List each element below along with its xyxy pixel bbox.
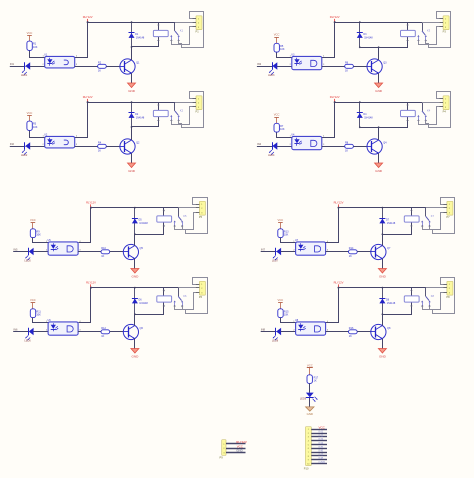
connector P2 (3-pin) xyxy=(192,96,202,114)
power flag RLY12V (channel 7) xyxy=(334,200,344,208)
svg-text:GND: GND xyxy=(379,354,387,358)
net label IN7 xyxy=(319,452,324,456)
power VCC (channel 7) xyxy=(278,218,284,229)
wire collector xyxy=(382,314,384,325)
svg-text:8: 8 xyxy=(308,456,309,458)
svg-text:P2: P2 xyxy=(196,110,200,114)
connector P9 (3-pin power header) xyxy=(220,440,227,460)
wire resistor to optocoupler pin 1 xyxy=(281,238,296,243)
svg-text:LED2: LED2 xyxy=(21,154,28,157)
net label IN2 xyxy=(10,142,15,146)
wire rail to optocoupler pin 4 xyxy=(75,103,88,138)
net label RLY12V xyxy=(236,440,247,444)
LED LED5 (input indicator) xyxy=(24,248,33,263)
wire input to LED xyxy=(13,331,29,333)
resistor R8 1K (base) xyxy=(345,141,354,152)
wire diode/collector to relay coil xyxy=(135,288,166,315)
net label IN6 xyxy=(319,449,324,453)
svg-text:LED7: LED7 xyxy=(272,260,279,263)
svg-text:R14: R14 xyxy=(349,247,354,250)
svg-text:Q2: Q2 xyxy=(136,141,140,144)
svg-text:1N4148: 1N4148 xyxy=(139,302,148,305)
svg-text:GND: GND xyxy=(319,460,327,464)
svg-text:P8: P8 xyxy=(446,295,450,299)
wire resistor to LED9 xyxy=(309,383,311,392)
relay K2 coil xyxy=(153,108,183,116)
ground (channel 8) xyxy=(378,349,386,359)
relay K1 coil xyxy=(153,28,183,36)
svg-text:2: 2 xyxy=(308,433,309,435)
svg-text:RLY12V: RLY12V xyxy=(334,280,344,284)
svg-text:RLY12V: RLY12V xyxy=(86,280,96,284)
diode D1 1N4148 xyxy=(129,21,145,48)
svg-text:VCC: VCC xyxy=(30,298,36,302)
svg-text:RLY12V: RLY12V xyxy=(330,15,340,19)
power flag RLY12V (channel 4) xyxy=(330,95,340,103)
svg-text:1K: 1K xyxy=(345,150,348,153)
wire resistor to optocoupler pin 1 xyxy=(30,131,45,138)
wire RLY12V rail xyxy=(91,287,179,289)
svg-text:10K: 10K xyxy=(284,234,289,237)
wire connector pin 1 routing xyxy=(430,198,455,234)
svg-text:1K: 1K xyxy=(345,70,348,73)
wire connector pin 1 routing xyxy=(183,198,208,234)
net label IN2 xyxy=(319,433,324,437)
wire base resistor to transistor base xyxy=(110,251,124,253)
svg-text:RLY12V: RLY12V xyxy=(83,95,93,99)
connector P3 (3-pin) xyxy=(439,16,449,34)
wire input to LED xyxy=(13,251,29,253)
connector P5 (3-pin) xyxy=(196,201,206,219)
wire input to LED xyxy=(10,66,26,68)
ground (channel 2) xyxy=(128,163,136,173)
power flag RLY12V (channel 2) xyxy=(83,95,93,103)
relay K6 coil xyxy=(157,294,187,302)
relay K7 contact (SPDT) xyxy=(421,208,431,228)
optocoupler U1 xyxy=(42,53,78,68)
wire optocoupler pin 3 to base resistor xyxy=(75,66,98,68)
svg-text:P6: P6 xyxy=(199,295,203,299)
LED LED7 (input indicator) xyxy=(272,248,281,263)
wire rail to optocoupler pin 4 xyxy=(75,23,88,58)
svg-text:10K: 10K xyxy=(280,48,285,51)
diode D8 1N4148 xyxy=(379,287,395,315)
svg-text:GND: GND xyxy=(379,274,387,278)
optocoupler U2 xyxy=(42,133,78,148)
wire connector pin 3 routing xyxy=(419,27,440,45)
wire base resistor to transistor base xyxy=(106,146,120,148)
wire RLY12V rail xyxy=(335,102,423,104)
svg-text:1K: 1K xyxy=(314,380,317,383)
relay K8 coil xyxy=(404,294,434,302)
wire LED9 to ground xyxy=(309,398,311,407)
net label IN1 xyxy=(319,430,324,434)
ground (channel 3) xyxy=(375,83,383,93)
net label VCC xyxy=(319,426,326,430)
wire optocoupler pin 3 to base resistor xyxy=(78,331,101,333)
wire RLY12V rail xyxy=(88,102,176,104)
svg-text:1: 1 xyxy=(308,429,309,431)
diode D6 1N4148 xyxy=(132,287,148,315)
svg-text:LED9: LED9 xyxy=(300,398,307,401)
wire connector pin 1 routing xyxy=(179,12,204,48)
transistor Q3 (NPN) xyxy=(367,59,387,74)
net label IN8 xyxy=(319,456,324,460)
connector P7 (3-pin) xyxy=(443,201,453,219)
optocoupler U7 xyxy=(293,239,329,255)
wire resistor to optocoupler pin 1 xyxy=(277,53,292,58)
wire relay common to connector pin 2 xyxy=(422,22,439,24)
wire resistor to optocoupler pin 1 xyxy=(281,318,296,323)
power VCC (channel 5) xyxy=(30,218,36,229)
wire emitter to ground xyxy=(131,153,133,163)
power flag RLY12V (channel 5) xyxy=(86,200,96,208)
relay K3 contact (SPDT) xyxy=(417,22,427,42)
svg-text:GND: GND xyxy=(375,169,383,173)
svg-text:K6: K6 xyxy=(183,294,187,298)
svg-text:K4: K4 xyxy=(427,108,431,112)
diode D3 1N4148 xyxy=(357,21,373,48)
wire diode/collector to relay coil xyxy=(383,288,413,315)
svg-text:LED1: LED1 xyxy=(21,74,28,77)
svg-text:RLY12V: RLY12V xyxy=(86,200,96,204)
wire P10 pin 1 xyxy=(311,429,327,431)
svg-text:10K: 10K xyxy=(36,314,41,317)
transistor Q1 (NPN) xyxy=(120,59,140,74)
svg-text:IN8: IN8 xyxy=(261,328,266,332)
svg-text:IN2: IN2 xyxy=(10,142,15,146)
ground (channel 4) xyxy=(375,163,383,173)
svg-text:1N4148: 1N4148 xyxy=(139,222,148,225)
wire connector pin 3 routing xyxy=(172,107,193,125)
ground (power LED) xyxy=(306,407,314,416)
svg-text:Q1: Q1 xyxy=(136,61,140,64)
relay K5 contact (SPDT) xyxy=(174,208,184,228)
resistor R16 1K (base) xyxy=(349,327,358,338)
svg-text:P7: P7 xyxy=(446,215,450,219)
transistor Q2 (NPN) xyxy=(120,139,140,154)
wire collector xyxy=(134,234,136,245)
svg-text:3: 3 xyxy=(308,437,309,439)
resistor R5 10K (pull-up) xyxy=(274,43,285,52)
wire connector pin 3 routing xyxy=(423,213,444,230)
wire input to LED xyxy=(10,146,26,148)
svg-text:VCC: VCC xyxy=(30,218,36,222)
wire connector pin 3 routing xyxy=(419,107,440,125)
svg-text:K2: K2 xyxy=(180,108,184,112)
wire rail to optocoupler pin 4 xyxy=(322,23,335,58)
resistor R17 1K xyxy=(307,375,319,384)
resistor R14 1K (base) xyxy=(349,247,358,258)
svg-text:VCC: VCC xyxy=(27,31,33,35)
svg-text:1N4148: 1N4148 xyxy=(387,222,396,225)
wire collector xyxy=(378,127,380,140)
relay K6 contact (SPDT) xyxy=(174,288,184,308)
wire P10 pin 8 xyxy=(311,455,327,457)
wire diode/collector to relay coil xyxy=(383,208,413,235)
wire LED to optocoupler pin 2 xyxy=(33,251,48,253)
wire connector pin 3 routing xyxy=(175,213,196,230)
resistor R6 1K (base) xyxy=(345,61,354,72)
ground (channel 6) xyxy=(131,349,139,359)
wire optocoupler pin 3 to base resistor xyxy=(322,66,345,68)
net label IN3 xyxy=(257,62,262,66)
wire relay common to connector pin 2 xyxy=(426,207,443,209)
relay K7 coil xyxy=(404,214,434,222)
svg-text:7: 7 xyxy=(308,452,309,454)
wire connector pin 1 routing xyxy=(183,278,208,314)
svg-text:1N4148: 1N4148 xyxy=(364,37,373,40)
wire rail to optocoupler pin 4 xyxy=(79,288,91,323)
svg-text:K5: K5 xyxy=(183,214,187,218)
wire emitter to ground xyxy=(134,339,136,349)
power flag RLY12V (channel 6) xyxy=(86,280,96,288)
relay K5 coil xyxy=(157,214,187,222)
svg-text:VCC: VCC xyxy=(278,218,284,222)
wire RLY12V rail xyxy=(335,22,423,24)
transistor Q4 (NPN) xyxy=(367,139,387,154)
wire connector pin 3 routing xyxy=(175,293,196,310)
wire emitter to ground xyxy=(378,73,380,83)
svg-text:RLY12V: RLY12V xyxy=(330,95,340,99)
connector P1 (3-pin) xyxy=(192,16,202,34)
resistor R1 10K (pull-up) xyxy=(27,41,38,50)
svg-text:1N4148: 1N4148 xyxy=(136,117,145,120)
resistor R4 1K (base) xyxy=(98,141,107,152)
wire rail to optocoupler pin 4 xyxy=(326,208,339,243)
wire collector xyxy=(382,234,384,245)
resistor R12 1K (base) xyxy=(101,327,110,338)
transistor Q7 (NPN) xyxy=(371,244,391,259)
svg-text:RLY12V: RLY12V xyxy=(334,200,344,204)
svg-text:LED8: LED8 xyxy=(272,340,279,343)
svg-text:P10: P10 xyxy=(304,466,309,470)
wire base resistor to transistor base xyxy=(353,146,367,148)
wire P10 pin 2 xyxy=(311,433,327,435)
net label IN8 xyxy=(261,328,266,332)
svg-text:P5: P5 xyxy=(199,215,203,219)
connector P4 (3-pin) xyxy=(439,96,449,114)
wire base resistor to transistor base xyxy=(357,331,371,333)
wire diode/collector to relay coil xyxy=(360,22,409,47)
wire connector pin 1 routing xyxy=(426,12,451,48)
LED LED3 (input indicator) xyxy=(268,62,277,77)
wire P9 pin 3 xyxy=(226,452,246,454)
wire base resistor to transistor base xyxy=(353,66,367,68)
wire P10 pin 3 xyxy=(311,436,327,438)
resistor R7 10K (pull-up) xyxy=(274,123,285,132)
LED LED1 (input indicator) xyxy=(21,62,30,77)
resistor R3 10K (pull-up) xyxy=(27,121,38,130)
svg-text:9: 9 xyxy=(308,460,309,462)
wire connector pin 1 routing xyxy=(179,92,204,128)
wire relay common to connector pin 2 xyxy=(426,287,443,289)
svg-text:LED6: LED6 xyxy=(24,340,31,343)
wire RLY12V rail xyxy=(91,207,179,209)
svg-text:GND: GND xyxy=(128,169,136,173)
svg-text:P9: P9 xyxy=(220,456,224,460)
wire RLY12V rail xyxy=(339,287,427,289)
power VCC (power LED) xyxy=(307,364,313,375)
wire connector pin 3 routing xyxy=(423,293,444,310)
svg-text:10: 10 xyxy=(307,463,309,465)
wire relay common to connector pin 2 xyxy=(175,102,192,104)
svg-text:LED3: LED3 xyxy=(268,74,275,77)
svg-text:1K: 1K xyxy=(101,255,104,258)
wire emitter to ground xyxy=(382,339,384,349)
optocoupler U3 xyxy=(290,53,326,69)
svg-text:1K: 1K xyxy=(349,335,352,338)
ground (channel 1) xyxy=(128,83,136,93)
wire P9 pin 2 xyxy=(226,448,246,450)
transistor Q8 (NPN) xyxy=(371,324,391,339)
resistor R10 1K (base) xyxy=(101,247,110,258)
svg-text:1K: 1K xyxy=(349,255,352,258)
power VCC (channel 2) xyxy=(27,111,33,121)
resistor R2 1K (base) xyxy=(98,61,107,72)
svg-text:1N4148: 1N4148 xyxy=(364,117,373,120)
svg-text:10K: 10K xyxy=(36,234,41,237)
svg-text:K8: K8 xyxy=(431,294,435,298)
wire LED to optocoupler pin 2 xyxy=(281,331,296,333)
optocoupler U6 xyxy=(46,319,82,335)
wire P10 pin 5 xyxy=(311,444,327,446)
wire optocoupler pin 3 to base resistor xyxy=(326,331,349,333)
net label GND xyxy=(319,460,327,464)
svg-text:RLY12V: RLY12V xyxy=(83,15,93,19)
diode D4 1N4148 xyxy=(357,101,373,128)
wire optocoupler pin 3 to base resistor xyxy=(75,146,98,148)
svg-text:K7: K7 xyxy=(431,214,435,218)
diode D7 1N4148 xyxy=(379,207,395,236)
LED LED8 (input indicator) xyxy=(272,328,281,343)
wire collector xyxy=(134,314,136,325)
optocoupler U5 xyxy=(46,239,82,255)
ground (channel 5) xyxy=(131,269,139,279)
svg-text:VCC: VCC xyxy=(27,111,33,115)
power flag RLY12V (channel 8) xyxy=(334,280,344,288)
wire collector xyxy=(131,127,133,140)
net label IN3 xyxy=(319,437,324,441)
net label IN4 xyxy=(257,142,262,146)
junction node collector xyxy=(378,126,380,128)
optocoupler U4 xyxy=(290,133,326,149)
wire LED to optocoupler pin 2 xyxy=(281,251,296,253)
wire connector pin 1 routing xyxy=(426,92,451,128)
wire RLY12V rail xyxy=(88,22,176,24)
resistor R15 10K (pull-up) xyxy=(278,309,289,318)
transistor Q6 (NPN) xyxy=(123,324,143,339)
wire resistor to optocoupler pin 1 xyxy=(277,133,292,138)
wire RLY12V rail xyxy=(339,207,427,209)
resistor R9 10K (pull-up) xyxy=(30,229,41,238)
power flag RLY12V (channel 1) xyxy=(83,15,93,23)
LED LED4 (input indicator) xyxy=(268,142,277,157)
relay K8 contact (SPDT) xyxy=(421,288,431,308)
svg-text:IN7: IN7 xyxy=(261,248,266,252)
svg-text:R12: R12 xyxy=(101,327,106,330)
svg-text:IN6: IN6 xyxy=(13,328,18,332)
relay K4 contact (SPDT) xyxy=(417,102,427,122)
wire P10 pin 10 xyxy=(311,463,327,465)
LED LED6 (input indicator) xyxy=(24,328,33,343)
wire diode/collector to relay coil xyxy=(132,102,160,126)
svg-text:1K: 1K xyxy=(101,335,104,338)
svg-text:10K: 10K xyxy=(280,128,285,131)
power VCC (channel 8) xyxy=(278,298,284,309)
svg-text:P4: P4 xyxy=(443,110,447,114)
LED LED2 (input indicator) xyxy=(21,142,30,157)
relay K1 contact (SPDT) xyxy=(170,22,180,42)
wire relay common to connector pin 2 xyxy=(178,207,195,209)
wire resistor to optocoupler pin 1 xyxy=(33,238,49,243)
wire input to LED xyxy=(261,251,277,253)
wire input to LED xyxy=(261,331,277,333)
wire diode/collector to relay coil xyxy=(135,208,166,235)
wire emitter to ground xyxy=(382,259,384,269)
svg-text:5: 5 xyxy=(308,444,309,446)
net label VCC xyxy=(237,444,243,448)
wire input to LED xyxy=(257,146,273,148)
wire emitter to ground xyxy=(378,153,380,163)
wire P10 pin 9 xyxy=(311,459,327,461)
svg-text:GND: GND xyxy=(128,89,136,93)
relay K4 coil xyxy=(401,108,431,116)
net label IN4 xyxy=(319,441,324,445)
wire diode/collector to relay coil xyxy=(132,22,160,46)
optocoupler U8 xyxy=(293,319,329,335)
svg-text:R16: R16 xyxy=(349,327,354,330)
net label IN7 xyxy=(261,248,266,252)
svg-text:LED5: LED5 xyxy=(24,260,31,263)
svg-text:VCC: VCC xyxy=(274,33,280,37)
power VCC (channel 4) xyxy=(274,113,280,124)
svg-text:VCC: VCC xyxy=(278,298,284,302)
wire diode/collector to relay coil xyxy=(360,102,409,127)
svg-text:GND: GND xyxy=(375,89,383,93)
wire collector xyxy=(378,47,380,60)
diode D5 1N4148 xyxy=(132,207,148,236)
wire LED to optocoupler pin 2 xyxy=(30,66,45,68)
wire P10 pin 6 xyxy=(311,448,327,450)
LED LED9 (power indicator) xyxy=(300,393,317,402)
wire P10 pin 4 xyxy=(311,440,327,442)
power VCC (channel 3) xyxy=(274,33,280,44)
svg-text:10K: 10K xyxy=(284,314,289,317)
wire rail to optocoupler pin 4 xyxy=(322,103,335,138)
svg-text:1K: 1K xyxy=(98,70,101,73)
svg-text:IN1: IN1 xyxy=(10,62,15,66)
relay K3 coil xyxy=(401,28,431,36)
svg-text:1K: 1K xyxy=(98,150,101,153)
diode D2 1N4148 xyxy=(129,101,145,128)
svg-text:GND: GND xyxy=(131,354,139,358)
svg-text:P1: P1 xyxy=(196,30,200,34)
wire relay common to connector pin 2 xyxy=(422,102,439,104)
power VCC (channel 1) xyxy=(27,31,33,41)
resistor R13 10K (pull-up) xyxy=(278,229,289,238)
connector P6 (3-pin) xyxy=(196,281,206,299)
net label IN1 xyxy=(10,62,15,66)
wire relay common to connector pin 2 xyxy=(178,287,195,289)
ground (channel 7) xyxy=(378,269,386,279)
wire P10 pin 7 xyxy=(311,452,327,454)
svg-text:10K: 10K xyxy=(33,46,38,49)
svg-text:1N4148: 1N4148 xyxy=(136,37,145,40)
wire connector pin 3 routing xyxy=(172,27,193,45)
wire resistor to optocoupler pin 1 xyxy=(33,318,49,323)
wire emitter to ground xyxy=(134,259,136,269)
